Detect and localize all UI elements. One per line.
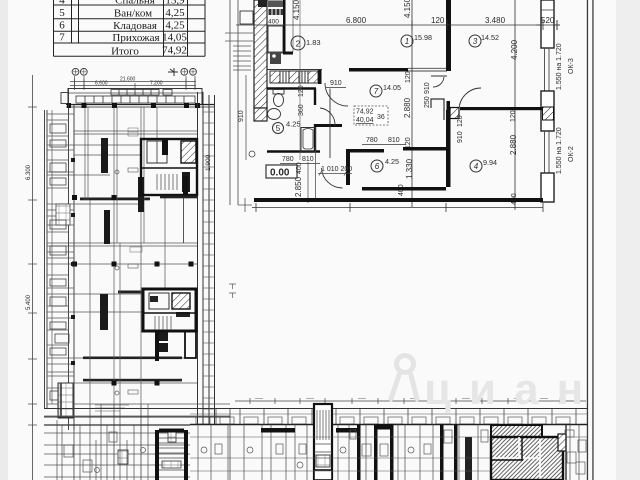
- svg-text:Прихожая: Прихожая: [112, 32, 159, 44]
- kitchen room2 divider: [292, 0, 294, 52]
- room 1 circle: [401, 35, 413, 47]
- hatched block corridor: [450, 108, 459, 119]
- axis circle C: [181, 68, 188, 75]
- apartment bottom wall: [254, 198, 543, 202]
- wall top of hall (room1/room7): [349, 68, 408, 72]
- svg-text:14.52: 14.52: [481, 33, 499, 42]
- top dimension line: [236, 20, 560, 30]
- left hatched wall: [254, 0, 267, 108]
- balcony band top: [68, 89, 202, 105]
- room4 left wall: [446, 110, 451, 187]
- dark shaft bar 2b: [138, 177, 144, 212]
- watermark pin legs: [391, 375, 417, 399]
- niche wall: [315, 124, 342, 127]
- column c4: [184, 103, 189, 108]
- svg-text:1.83: 1.83: [306, 38, 321, 47]
- svg-text:120: 120: [510, 110, 517, 122]
- svg-text:4.25: 4.25: [385, 157, 399, 166]
- window row top a: [76, 90, 195, 104]
- svg-text:4,25: 4,25: [165, 7, 185, 19]
- axis circle D: [190, 68, 197, 75]
- apt label B: [130, 247, 142, 252]
- svg-text:250: 250: [424, 96, 431, 108]
- svg-text:9.94: 9.94: [483, 158, 497, 167]
- columns row y197: [72, 195, 77, 200]
- right strip rungs: [203, 112, 215, 409]
- svg-text:2: 2: [296, 39, 301, 49]
- apt label A: [128, 128, 138, 136]
- svg-text:2.880: 2.880: [509, 134, 518, 155]
- building right wall of wing: [198, 92, 215, 425]
- wall black stub: [447, 101, 451, 121]
- svg-text:1.330: 1.330: [405, 158, 414, 179]
- vertical dim chain x412: [411, 0, 413, 207]
- svg-text:400: 400: [268, 19, 279, 26]
- wardrobe hatched row: [270, 71, 318, 83]
- svg-text:120: 120: [457, 115, 464, 127]
- hatched block in pier: [543, 107, 554, 120]
- corridor door arc: [433, 77, 444, 87]
- svg-text:6.300: 6.300: [26, 164, 32, 180]
- window OK-2: [545, 131, 550, 174]
- niche wall lower line: [315, 152, 317, 199]
- stair block bottom left: [58, 383, 73, 418]
- svg-text:780: 780: [282, 156, 294, 163]
- svg-text:400: 400: [296, 162, 303, 174]
- axis circle B: [80, 68, 87, 75]
- extra bottom verticals: [57, 404, 148, 480]
- svg-text:циан: циан: [424, 365, 601, 414]
- hall left wall vert: [346, 149, 350, 185]
- svg-text:1: 1: [405, 37, 409, 46]
- balcony inner line: [190, 413, 588, 415]
- svg-text:120: 120: [298, 85, 305, 97]
- hall upper walls row: [348, 149, 384, 153]
- hatched flat inner walls: [493, 437, 540, 478]
- strip interior lines: [190, 437, 588, 471]
- right wall pier top: [541, 0, 554, 48]
- svg-text:910: 910: [424, 82, 431, 94]
- svg-text:1.900: 1.900: [205, 154, 212, 171]
- interior horizontal lines: [47, 131, 230, 404]
- svg-text:4: 4: [59, 0, 65, 7]
- left dim line 910: [245, 75, 247, 160]
- wall dark block top: [258, 0, 267, 7]
- svg-text:3: 3: [473, 37, 478, 46]
- lift dark blocks: [159, 332, 168, 341]
- furniture marks room C: [115, 391, 119, 395]
- svg-text:ОК-3: ОК-3: [568, 58, 575, 74]
- svg-text:15,9: 15,9: [165, 0, 185, 7]
- svg-text:14.05: 14.05: [383, 83, 401, 92]
- balcony rail line 2: [237, 0, 239, 205]
- bottom dim line: [252, 207, 543, 209]
- bathroom walls: [267, 89, 320, 152]
- room 7 circle: [370, 85, 382, 97]
- left wing bottom dense lines: [44, 416, 230, 477]
- dark shaft bar 3: [100, 294, 108, 330]
- furniture marks room A: [115, 170, 119, 174]
- closet end wall stub: [318, 69, 322, 84]
- svg-text:1 010 200: 1 010 200: [321, 166, 352, 173]
- frame line right 2: [592, 0, 593, 480]
- right grey band: [616, 0, 640, 480]
- frame line right 1: [587, 0, 588, 480]
- left balcony column dividers: [47, 110, 74, 404]
- svg-text:120: 120: [405, 71, 412, 83]
- svg-text:120: 120: [431, 16, 445, 25]
- note text bottom: [95, 405, 129, 411]
- left outer dim line: [32, 75, 34, 480]
- room 5 circle: [273, 123, 284, 134]
- hatched wall block lower: [254, 108, 267, 121]
- column c3: [151, 103, 156, 108]
- sink: [268, 109, 281, 120]
- table grid: [54, 0, 206, 56]
- svg-text:1.550 на 1.720: 1.550 на 1.720: [556, 43, 563, 90]
- balcony ticks: [225, 32, 253, 34]
- core 2 stairs/lift: [143, 289, 196, 361]
- left outer wall lines: [45, 89, 75, 431]
- wall notch: [431, 99, 444, 120]
- svg-text:7: 7: [374, 87, 379, 96]
- balcony front edge: [44, 408, 588, 410]
- dark hatch column right of flat: [558, 434, 566, 451]
- interior vertical lines: [85, 107, 165, 404]
- bottom left thick wall a: [155, 430, 159, 480]
- balcony stair rungs: [233, 46, 251, 70]
- svg-text:0.00: 0.00: [270, 168, 290, 179]
- svg-text:2.850: 2.850: [294, 176, 303, 197]
- strip main wall line: [190, 424, 588, 426]
- dim line over pier: [536, 24, 560, 26]
- heavy interior wall second: [83, 379, 182, 382]
- left appendix box: [61, 93, 68, 104]
- svg-text:910: 910: [238, 110, 245, 122]
- balcony dark smudge 1: [56, 204, 70, 225]
- core 1 lower extension wall: [183, 176, 188, 197]
- wall vertical right of room1: [446, 0, 451, 71]
- svg-text:4.200: 4.200: [510, 39, 519, 60]
- strip fixtures: [201, 430, 586, 474]
- exit dim underline: [318, 173, 352, 175]
- axis flag mark: [168, 68, 178, 76]
- opening threshold lines: [408, 67, 447, 69]
- balcony band dividers: [216, 409, 576, 425]
- top dim line 1: [70, 81, 196, 83]
- svg-text:36: 36: [377, 114, 385, 121]
- wall room3/room4 divider: [460, 107, 543, 110]
- hall interior lines: [329, 89, 331, 159]
- svg-text:7: 7: [59, 32, 65, 44]
- dim line 2850 chain: [307, 162, 309, 203]
- bottom-left dense line row: [44, 424, 190, 426]
- svg-text:74,92: 74,92: [356, 109, 374, 116]
- hall bottom inner wall: [362, 187, 446, 191]
- svg-text:4.25: 4.25: [286, 120, 301, 129]
- svg-text:4,25: 4,25: [165, 20, 185, 32]
- furniture marks room B: [115, 266, 119, 270]
- svg-text:74,92: 74,92: [162, 45, 187, 57]
- columns row y383: [112, 381, 117, 386]
- balcony window boxes: [196, 417, 570, 424]
- svg-text:910: 910: [457, 131, 464, 143]
- hatched flat in strip main: [491, 437, 563, 480]
- svg-text:780: 780: [366, 137, 378, 144]
- window OK-3: [545, 48, 550, 91]
- axis circle A: [72, 68, 79, 75]
- slab line with columns: [66, 104, 214, 106]
- axis stems: [75, 76, 196, 90]
- balcony window boxes: [50, 124, 69, 400]
- closet top wall line: [267, 69, 322, 71]
- svg-text:Ван/ком: Ван/ком: [114, 8, 152, 20]
- svg-text:15.98: 15.98: [414, 33, 432, 42]
- svg-text:520: 520: [541, 16, 555, 25]
- strip room dividers thin: [198, 425, 579, 480]
- svg-text:5: 5: [276, 124, 281, 133]
- balcony small rect: [240, 11, 253, 24]
- room 4 circle: [470, 160, 482, 172]
- vertical dim chain x515: [514, 0, 516, 210]
- stair shaft rungs bottom: [159, 429, 184, 433]
- small dark blocks bottom: [168, 432, 176, 442]
- svg-text:360: 360: [298, 104, 305, 116]
- door arc hall top: [325, 83, 348, 106]
- core 1 stairs/lift: [141, 139, 197, 195]
- bottom left thick wall b: [184, 430, 188, 480]
- right wall pier mid: [541, 91, 554, 131]
- top dim line: [235, 400, 586, 402]
- svg-text:Итого: Итого: [111, 46, 139, 58]
- survey mark circle: [249, 151, 255, 157]
- corridor door lintel: [431, 75, 447, 77]
- exit door arc: [322, 168, 343, 188]
- dark shaft bar 1: [101, 138, 108, 173]
- hatched flat in strip upper: [491, 425, 542, 437]
- svg-text:3.480: 3.480: [485, 16, 506, 25]
- watermark pin head: [397, 356, 414, 373]
- svg-text:5.400: 5.400: [26, 294, 32, 310]
- 0.00 level box: [266, 165, 297, 178]
- column c1: [82, 103, 87, 108]
- kitchen sink dark: [270, 53, 281, 64]
- bottom left room verticals: [74, 404, 230, 480]
- svg-text:810: 810: [388, 137, 400, 144]
- left grey band: [0, 0, 8, 480]
- svg-text:4: 4: [474, 162, 479, 171]
- svg-text:Кладовая: Кладовая: [113, 20, 157, 32]
- top dim line 2: [70, 85, 196, 87]
- kitchen stove: [268, 1, 283, 7]
- svg-text:2.880: 2.880: [403, 97, 412, 118]
- door arc bath: [320, 108, 335, 126]
- column c2: [112, 103, 117, 108]
- dim ticks: [75, 79, 196, 88]
- area info box: [354, 106, 388, 125]
- room4 door arc: [459, 88, 481, 110]
- strip thick wall stubs: [261, 424, 472, 480]
- svg-text:1.550 на 1.720: 1.550 на 1.720: [556, 127, 563, 174]
- svg-text:6.800: 6.800: [346, 16, 367, 25]
- room 6 circle: [371, 160, 383, 172]
- room 3 circle: [469, 35, 481, 47]
- heavy interior wall: [80, 198, 150, 201]
- svg-text:ОК-2: ОК-2: [568, 146, 575, 162]
- svg-text:4.150: 4.150: [403, 0, 412, 18]
- svg-text:5: 5: [59, 7, 65, 19]
- svg-text:40,04: 40,04: [356, 117, 374, 124]
- columns row y264: [47, 263, 197, 265]
- balcony rail line left: [229, 0, 231, 205]
- dark shaft bar 2: [104, 210, 110, 244]
- right wall pier bottom: [541, 173, 554, 202]
- svg-text:6: 6: [375, 162, 380, 171]
- room 2 circle: [291, 36, 305, 50]
- svg-text:Спальня: Спальня: [115, 0, 155, 7]
- strip stair core: [314, 404, 332, 480]
- svg-text:910: 910: [330, 80, 342, 87]
- wall stub kitchen: [283, 0, 286, 54]
- dim ticks: [250, 398, 560, 404]
- bathtub: [301, 128, 316, 152]
- hatched flat inner black: [491, 437, 523, 460]
- svg-text:14,05: 14,05: [162, 32, 187, 44]
- kitchen counter line: [267, 0, 284, 53]
- toilet: [274, 94, 284, 107]
- svg-text:6: 6: [59, 20, 65, 32]
- svg-text:810: 810: [302, 156, 314, 163]
